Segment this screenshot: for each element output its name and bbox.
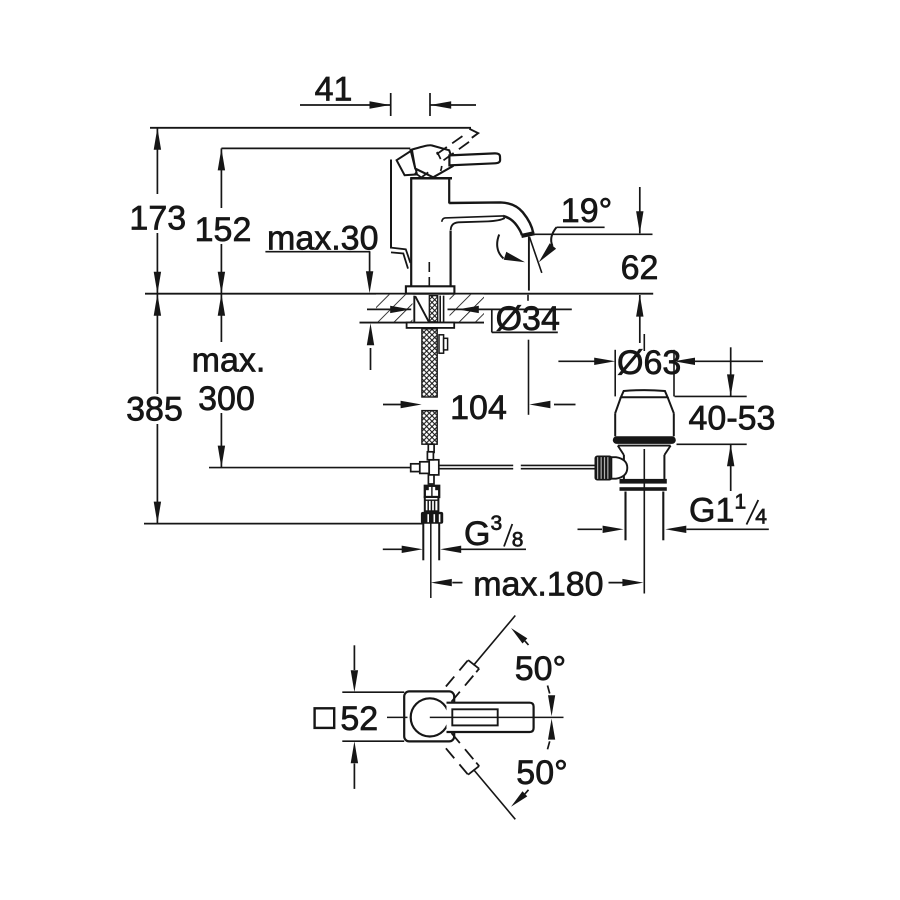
dimension max.300 vertical line [218,294,225,468]
faucet body right edge lower [450,231,452,287]
drain centerline top stub [643,334,645,351]
lower dashed lever cap [468,763,479,775]
lower 50deg axis line [474,770,516,820]
svg-text:50°: 50° [516,754,567,792]
label 104 [450,389,507,427]
label 50deg lower [516,754,567,792]
dia34 label box [480,309,572,332]
label G3/8 [464,512,523,553]
handle knob notch [415,172,428,177]
topview lever inner rect [452,709,497,725]
dimension 41 lines and arrows [300,93,476,116]
40-53 bottom extension [677,443,747,445]
upper dashed lever edge B [452,669,480,702]
sq52 bottom extension [342,740,404,742]
deck hatched section right block [450,295,485,322]
popup tee left block [411,464,420,472]
spout top contour [449,202,533,233]
label 19deg [561,192,612,230]
label square symbol [315,708,335,728]
19deg vertical reference [528,237,530,291]
lower dashed lever edge A [446,748,468,774]
svg-text:173: 173 [129,200,186,238]
svg-text:50°: 50° [515,650,566,688]
handle knob facet line [412,150,415,168]
label 173 [129,200,186,238]
faucet pull rod elbow [391,248,410,269]
dimension sq52 arrows [351,645,358,789]
upper 50deg arc arrow [511,628,529,645]
dimension 40-53 arrows [727,347,734,491]
handle knob main polygon [411,145,453,177]
svg-text:max.180: max.180 [473,565,603,603]
drain upper cylinder [615,413,674,436]
shank mounting nut [407,323,455,328]
dimension 104 arrows [383,401,576,408]
19deg underline [557,226,605,228]
faucet lever bar [449,153,500,165]
svg-text:max.30: max.30 [267,219,379,257]
drain locknut [620,479,667,491]
handle knob dashed arc [437,152,442,171]
dimension 152 vertical line [218,148,225,293]
svg-text:41: 41 [315,71,353,109]
wire deck top line [145,293,653,295]
label 152 [195,211,252,249]
topview cartridge circle [411,698,449,736]
flex hose upper [422,329,437,397]
svg-text:4: 4 [755,506,767,529]
svg-text:G: G [464,515,490,553]
faucet pull rod [390,160,392,249]
label 52 [340,700,378,738]
topview centerline [387,716,564,718]
upper 50deg axis line [474,616,516,666]
popup tee main block [429,460,439,475]
19deg left arc arrow [497,235,525,263]
40-53 top extension [675,395,747,397]
label dia34 [496,300,560,338]
104 extension line [527,295,530,415]
drain dia63 left extension [614,350,616,397]
dimension dia63 arrows [558,358,763,365]
svg-text:8: 8 [512,528,524,551]
svg-text:104: 104 [450,389,507,427]
drain dia63 right extension [673,350,675,397]
drain cap cone [615,397,674,413]
drain flange seal [613,436,676,444]
wire 385 bottom reference line [144,523,423,525]
svg-text:Ø63: Ø63 [617,344,681,382]
svg-text:300: 300 [198,380,255,418]
faucet centerline dashed [428,262,430,292]
hose bottom stem [428,444,434,452]
topview body square [404,691,454,741]
drain body taper [618,446,671,455]
label 41 [315,71,353,109]
drain tailpipe [626,492,664,541]
wire handle rest level line (y=148.5) [221,147,410,149]
sq52 top extension [342,691,404,693]
aerator level line [534,233,653,235]
drain under flange line [618,445,671,447]
svg-text:3: 3 [491,512,503,535]
label max.180 [473,565,603,603]
horizontal drain rod [439,465,596,468]
19deg diagonal stream line [530,237,542,273]
upper dashed lever cap [468,660,479,672]
shank left wedge [413,296,430,322]
label G1-1/4 [689,491,767,530]
lower 50deg bowtie arrow [548,719,556,750]
drain plug cap [621,390,668,397]
label 50deg upper [515,650,566,688]
popup tee lower stem [428,475,434,484]
raised lever dashed outline [437,129,479,161]
spout underside line [451,218,505,230]
dimension 62 arrows [636,187,643,343]
svg-text:19°: 19° [561,192,612,230]
label 385 [126,391,183,429]
drain knurled knob [595,456,611,479]
svg-text:62: 62 [621,249,659,287]
faucet body left edge [410,178,412,286]
label max.30 [267,219,379,257]
supply connector body [425,486,439,497]
shank second stud lines [440,296,443,322]
svg-text:1: 1 [735,491,747,514]
handle knob left flap [397,150,417,175]
wire top reference line (handle raised level, y=128) [150,127,471,129]
svg-text:Ø34: Ø34 [496,300,560,338]
topview lever outline [447,703,534,732]
aerator face [521,233,534,236]
upper dashed lever edge A [446,660,468,686]
drain centerline [643,449,645,594]
supply G3/8 nut [421,512,443,524]
svg-text:40-53: 40-53 [689,399,776,437]
faucet base plate [406,286,455,293]
spout bottom arc to aerator [503,216,522,235]
dimension dia34 arrows [367,306,480,313]
dimension G3/8 arrows [383,546,526,553]
shank threaded stud [429,296,437,322]
label max. [192,341,266,379]
supply pipe [423,524,439,561]
wire max.300 reference line [209,467,411,469]
upper 50deg bowtie arrow [548,686,556,717]
drain valve body [624,455,665,482]
dimension G1-1/4 arrows [578,526,769,533]
svg-text:G1: G1 [689,491,734,529]
popup tee mid block [420,462,429,474]
label 40-53 [689,399,776,437]
spout bottom inner line [442,216,503,222]
svg-text:152: 152 [195,211,252,249]
drain ball bulge [611,457,627,479]
hose side bracket [439,335,448,353]
faucet body right edge upper [448,178,450,203]
supply knurled segment [425,497,439,511]
19deg label leader [539,227,557,262]
dimension max.180 arrows [431,579,644,586]
dimension 173 vertical line [154,128,161,294]
faucet body top shoulder [410,177,452,180]
lower dashed lever edge B [452,733,480,766]
deck bottom line [360,322,485,324]
dimension max.30 leader and arrows [265,252,374,370]
popup tee upper stem [427,452,433,460]
dimension 385 vertical line [154,294,161,524]
svg-text:385: 385 [126,391,183,429]
lower 50deg arc arrow [511,790,529,807]
label 300 [198,380,255,418]
flex hose lower [422,411,437,445]
svg-text:52: 52 [340,700,378,738]
label dia63 [617,344,681,382]
supply pipe centerline [430,524,432,599]
svg-text:max.: max. [192,341,266,379]
deck hatched section left block [376,295,413,322]
label 62 [621,249,659,287]
